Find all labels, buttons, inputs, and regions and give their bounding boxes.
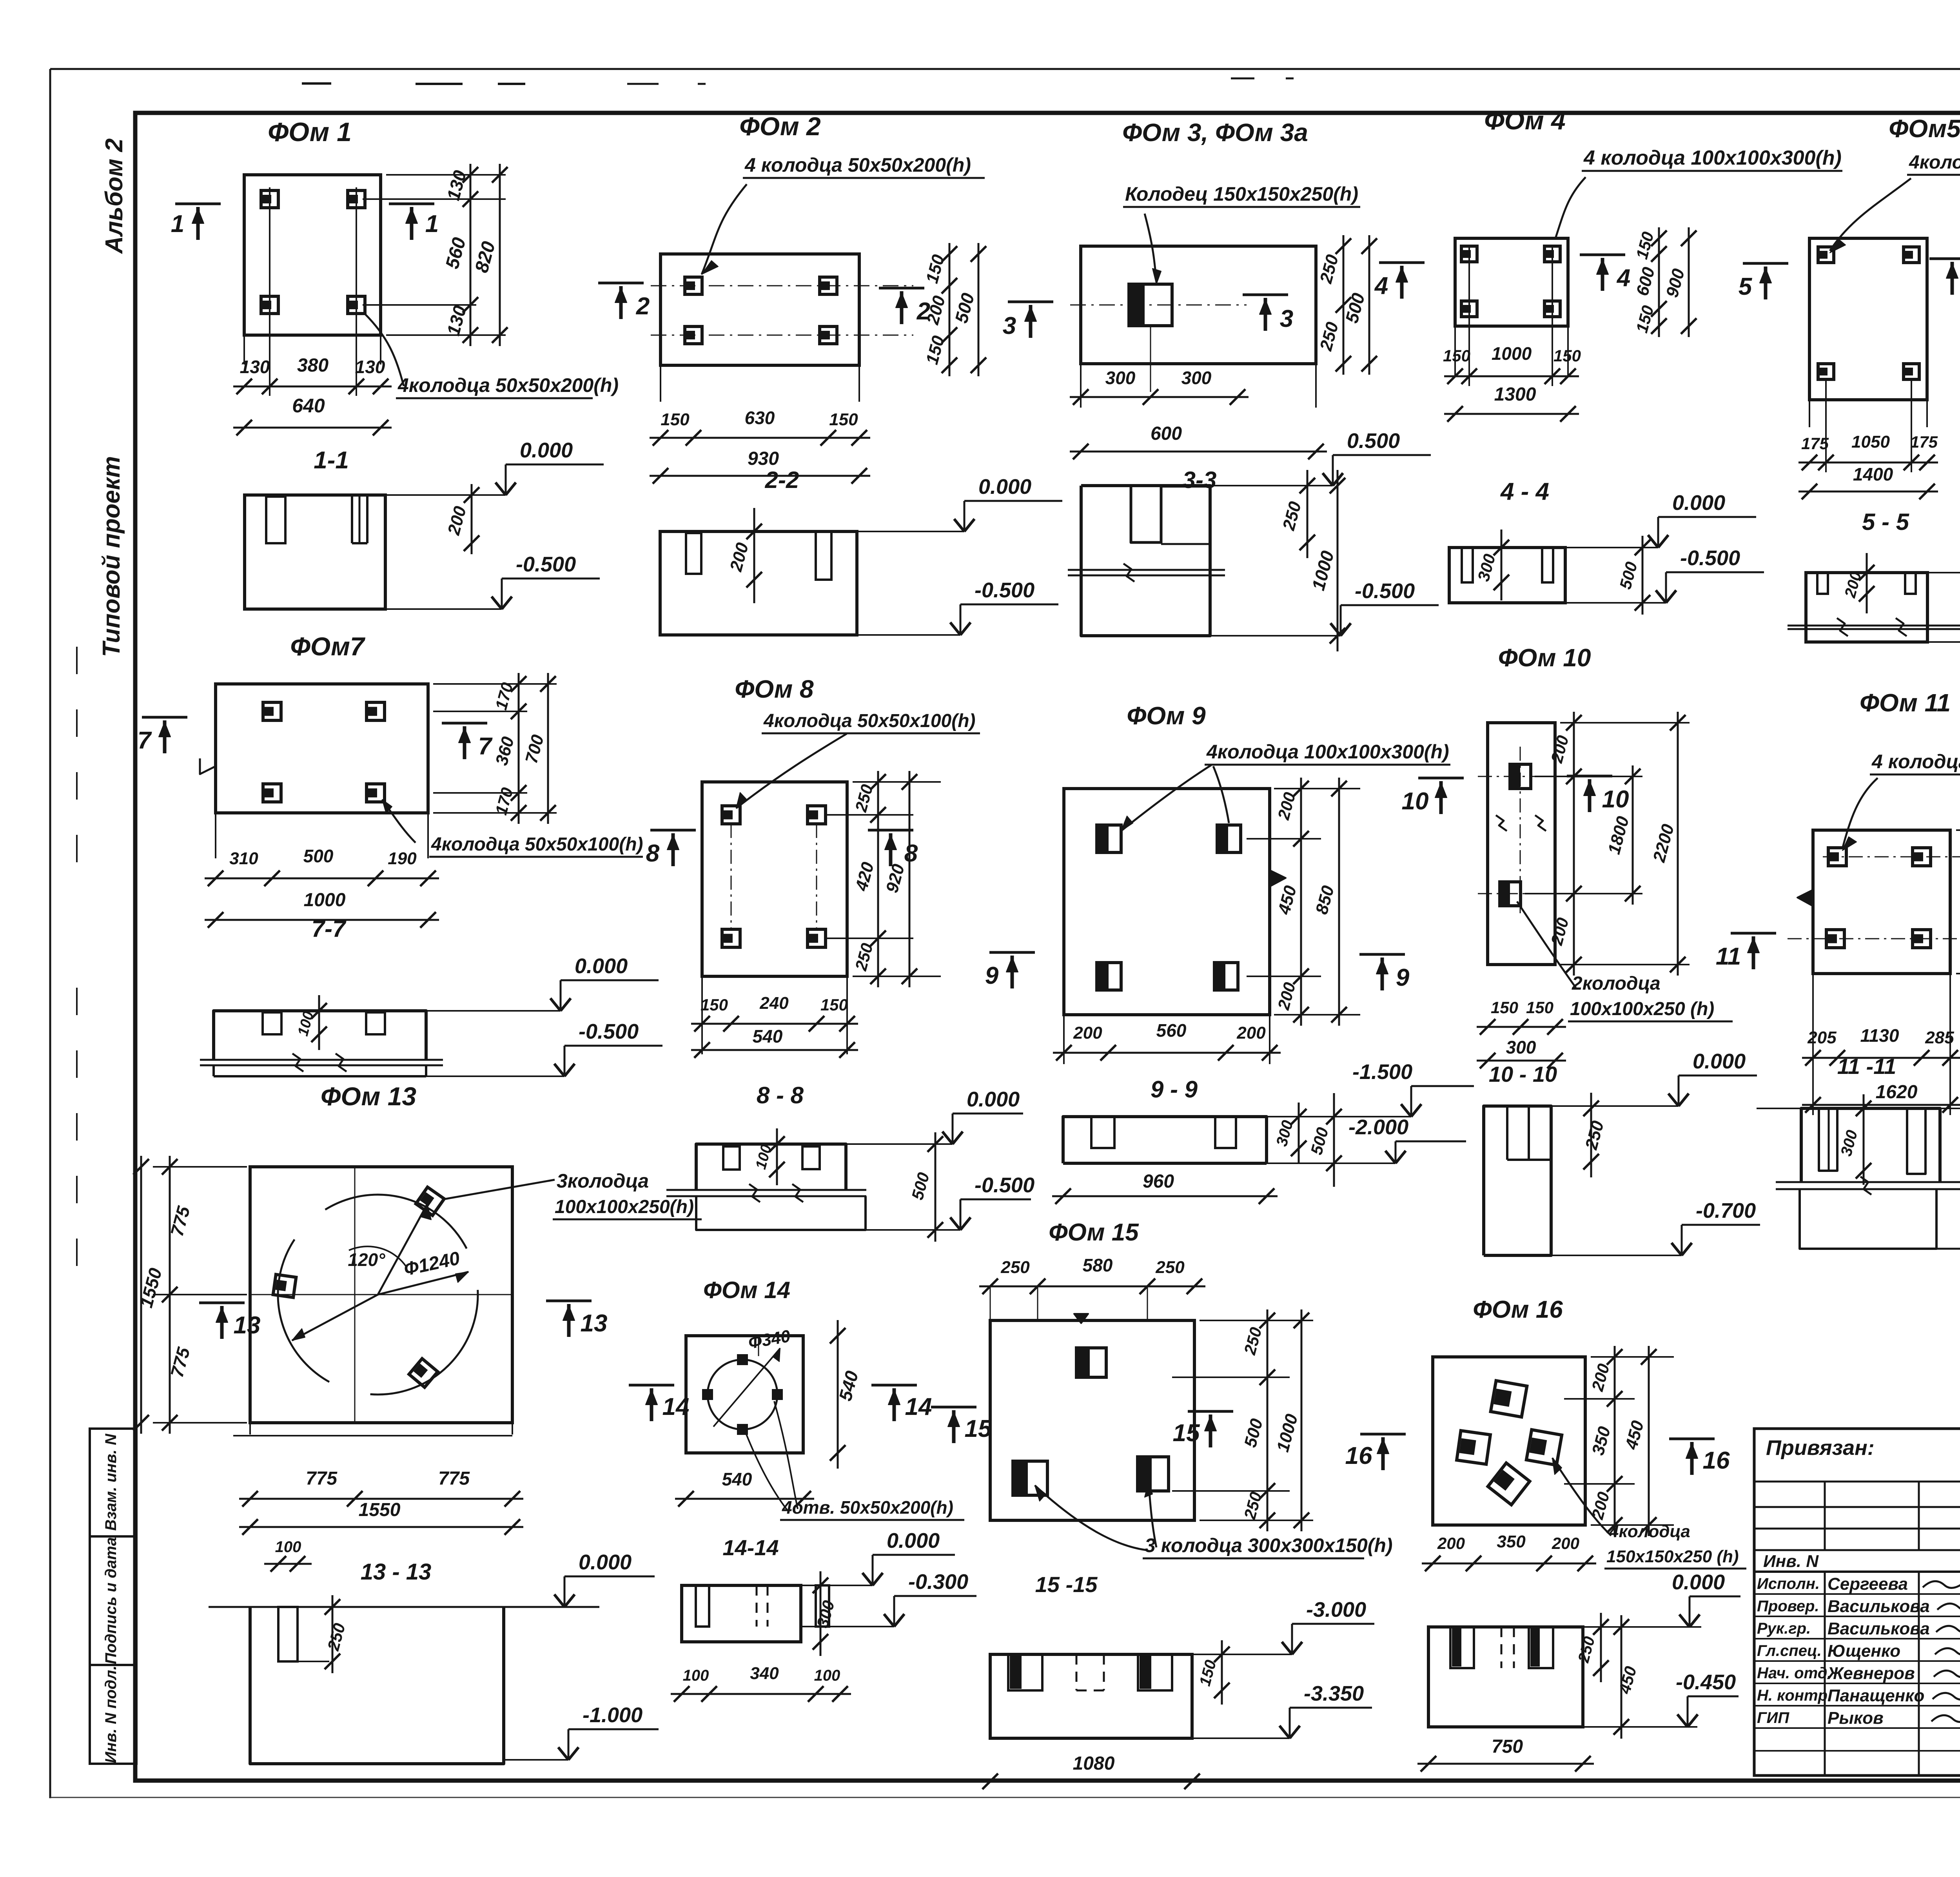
elevation 0.000 section 5-5 — [1927, 572, 1960, 573]
elevation 0.000 section 10-10 — [1551, 1105, 1679, 1107]
svg-text:Рыков: Рыков — [1828, 1708, 1884, 1728]
svg-text:930: 930 — [748, 448, 779, 469]
wells ФОм 13 — [416, 1187, 444, 1215]
svg-text:-1.000: -1.000 — [583, 1703, 642, 1727]
svg-text:0.000: 0.000 — [520, 439, 573, 462]
dim 750 section 16-16 — [1417, 1763, 1594, 1765]
svg-text:Жевнеров: Жевнеров — [1827, 1664, 1915, 1683]
svg-text:-2.000: -2.000 — [1348, 1115, 1408, 1139]
wells ФОм 15 — [1076, 1348, 1106, 1377]
dims ФОм 9 bottom — [1053, 1052, 1281, 1054]
svg-text:775: 775 — [438, 1468, 470, 1489]
svg-text:500: 500 — [303, 846, 334, 866]
margin stamp boxes bottom-left — [90, 1429, 136, 1764]
svg-text:14-14: 14-14 — [722, 1535, 779, 1560]
svg-text:100х100х250 (h): 100х100х250 (h) — [1570, 999, 1714, 1019]
elevation -3.350 section 15-15 — [1192, 1737, 1290, 1739]
svg-text:540: 540 — [722, 1469, 752, 1489]
svg-text:10 - 10: 10 - 10 — [1489, 1062, 1557, 1086]
svg-text:Инв. N: Инв. N — [1763, 1552, 1819, 1571]
svg-text:11: 11 — [1716, 943, 1741, 970]
svg-text:100: 100 — [275, 1538, 301, 1556]
section cut marks 9 — [989, 951, 1035, 954]
col dividers signature table — [1824, 1572, 1826, 1775]
svg-text:Василькова: Василькова — [1828, 1597, 1930, 1616]
elevation 0.000 section 8-8 — [846, 1143, 953, 1145]
svg-text:100: 100 — [683, 1667, 709, 1684]
svg-text:3: 3 — [1280, 305, 1293, 332]
dim 200 section 1-1 — [471, 484, 473, 554]
section cut marks 7 — [142, 716, 187, 719]
dims ФОм 9 right — [1274, 788, 1360, 789]
section cut marks 5 — [1743, 262, 1788, 265]
well ФОм 3 — [1129, 284, 1172, 326]
svg-text:340: 340 — [750, 1664, 779, 1683]
svg-text:775: 775 — [306, 1468, 338, 1489]
elevation 0.000 section 14-14 — [801, 1585, 873, 1586]
elevation -0.500 section 3-3 — [1210, 635, 1341, 637]
dims ФОм 2 right — [949, 243, 951, 376]
svg-text:1000: 1000 — [1492, 343, 1532, 364]
svg-text:-0.500: -0.500 — [975, 579, 1034, 602]
svg-text:4: 4 — [1616, 265, 1630, 292]
svg-text:ГИП: ГИП — [1757, 1709, 1789, 1726]
datum triangle ФОм 15 top — [1074, 1314, 1088, 1323]
svg-text:150: 150 — [1526, 998, 1553, 1017]
svg-text:16: 16 — [1345, 1442, 1372, 1469]
dims ФОм 8 bottom — [691, 1023, 858, 1025]
svg-text:Альбом 2: Альбом 2 — [101, 138, 128, 254]
svg-text:1550: 1550 — [359, 1500, 401, 1520]
svg-text:ФОм 3, ФОм 3а: ФОм 3, ФОм 3а — [1122, 118, 1308, 147]
dims ФОм 11 right — [1956, 829, 1960, 831]
svg-text:ФОм 10: ФОм 10 — [1498, 644, 1591, 672]
anchor wells ФОм 10 — [1510, 764, 1531, 789]
svg-text:4 колодца 50х50х200(h): 4 колодца 50х50х200(h) — [744, 154, 971, 176]
break in plan ФОм 10 — [1496, 815, 1507, 831]
svg-text:4 колодца 100х100х300(h): 4 колодца 100х100х300(h) — [1583, 147, 1842, 169]
svg-text:-0.500: -0.500 — [516, 553, 576, 576]
dim 500 section 8-8 — [935, 1132, 936, 1242]
dims ФОм 3 right — [1343, 235, 1345, 375]
elevation -0.300 section 14-14 — [801, 1626, 894, 1627]
centerlines ФОм 13 — [354, 1167, 356, 1423]
svg-text:-3.350: -3.350 — [1304, 1682, 1364, 1705]
outer sheet border — [50, 68, 1960, 70]
svg-text:5: 5 — [1739, 273, 1753, 300]
svg-text:150: 150 — [820, 996, 848, 1014]
svg-text:0.000: 0.000 — [1672, 1571, 1725, 1594]
svg-text:-0.450: -0.450 — [1676, 1670, 1736, 1694]
svg-text:10: 10 — [1602, 786, 1629, 813]
svg-text:Подпись и дата: Подпись и дата — [102, 1537, 120, 1664]
ground lines section 5-5 — [1788, 625, 1960, 627]
signature rows — [1754, 1571, 1960, 1573]
dims ФОм 15 right — [1200, 1320, 1313, 1321]
dim 300 section 4-4 — [1501, 530, 1503, 600]
svg-text:1400: 1400 — [1853, 464, 1893, 484]
svg-text:100х100х250(h): 100х100х250(h) — [555, 1197, 694, 1217]
svg-text:350: 350 — [1497, 1532, 1526, 1551]
svg-text:1080: 1080 — [1073, 1753, 1115, 1774]
svg-text:-0.500: -0.500 — [1355, 579, 1415, 603]
svg-text:560: 560 — [1156, 1020, 1187, 1041]
svg-text:Н. контр.: Н. контр. — [1757, 1687, 1832, 1704]
svg-text:9: 9 — [985, 962, 999, 989]
dims section 3-3 — [1307, 470, 1308, 558]
anchor wells ФОм 11 — [1828, 848, 1846, 866]
svg-text:3колодца: 3колодца — [557, 1170, 649, 1192]
svg-text:150: 150 — [701, 996, 728, 1014]
svg-text:540: 540 — [753, 1026, 783, 1046]
svg-text:200: 200 — [1552, 1534, 1579, 1552]
radius arrows ФОм 13 — [378, 1204, 427, 1295]
svg-text:4отв. 50х50х200(h): 4отв. 50х50х200(h) — [782, 1497, 953, 1518]
svg-text:16: 16 — [1703, 1447, 1730, 1474]
datum triangle ФОм 11 — [1797, 890, 1813, 906]
svg-text:0.000: 0.000 — [1693, 1050, 1746, 1073]
svg-text:175: 175 — [1801, 434, 1829, 453]
svg-text:1000: 1000 — [304, 890, 346, 910]
svg-text:8 - 8: 8 - 8 — [757, 1082, 804, 1108]
svg-text:750: 750 — [1492, 1736, 1523, 1757]
svg-text:150х150х250 (h): 150х150х250 (h) — [1606, 1547, 1739, 1566]
dim 500 section 4-4 — [1642, 536, 1644, 615]
section cut marks 8 — [650, 829, 696, 832]
ground lines section 3-3 — [1068, 569, 1225, 571]
svg-text:ФОм5: ФОм5 — [1889, 114, 1960, 143]
svg-text:15 -15: 15 -15 — [1035, 1572, 1098, 1597]
dims section 9-9 — [1298, 1103, 1300, 1162]
svg-text:7-7: 7-7 — [312, 916, 347, 942]
svg-text:8: 8 — [904, 840, 918, 867]
svg-text:-0.500: -0.500 — [579, 1020, 639, 1043]
svg-text:Колодец 150х150х250(h): Колодец 150х150х250(h) — [1125, 183, 1358, 205]
dim 250 section 13-13 — [332, 1595, 334, 1673]
svg-text:Сергеева: Сергеева — [1828, 1574, 1908, 1594]
svg-text:150: 150 — [1443, 346, 1470, 365]
dim 450 section 16-16 — [1621, 1615, 1622, 1739]
bolt circle ФОм 13 — [278, 1195, 478, 1395]
svg-text:13: 13 — [581, 1310, 608, 1337]
svg-text:640: 640 — [292, 395, 325, 417]
section cut marks 1 — [175, 203, 221, 205]
svg-text:300: 300 — [1181, 368, 1212, 388]
dim 100 section 7-7 — [318, 995, 320, 1050]
datum triangle ФОм 7 — [200, 758, 216, 774]
svg-text:4колодца: 4колодца — [1609, 1522, 1690, 1541]
svg-text:1-1: 1-1 — [314, 447, 349, 474]
dim 300 section 14-14 — [820, 1571, 822, 1656]
section cut marks 10 — [1418, 777, 1464, 780]
svg-text:4колодца 100х100х300(h): 4колодца 100х100х300(h) — [1206, 741, 1449, 763]
dim 150 section 15-15 — [1221, 1640, 1223, 1705]
svg-text:ФОм 16: ФОм 16 — [1473, 1296, 1563, 1323]
dims ФОм 8 right — [853, 781, 941, 783]
svg-text:580: 580 — [1083, 1255, 1113, 1275]
elevation -1.000 section 13-13 — [504, 1759, 568, 1761]
svg-text:15: 15 — [965, 1415, 992, 1442]
dims ФОм 16 bottom — [1422, 1563, 1596, 1565]
ground lines section 8-8 — [666, 1189, 866, 1191]
svg-text:150: 150 — [1491, 998, 1518, 1017]
section cut marks 13 — [199, 1302, 245, 1304]
svg-text:190: 190 — [388, 849, 417, 868]
svg-text:9: 9 — [1396, 964, 1410, 991]
dim 250 section 16-16 — [1600, 1613, 1602, 1682]
bolts ФОм 14 — [737, 1354, 748, 1365]
svg-text:ФОм 11: ФОм 11 — [1860, 689, 1951, 717]
anchor wells ФОм 9 — [1097, 825, 1121, 852]
svg-text:1050: 1050 — [1851, 432, 1890, 452]
svg-text:13 - 13: 13 - 13 — [361, 1559, 432, 1585]
svg-text:13: 13 — [234, 1312, 261, 1339]
datum triangle ФОм 9 — [1270, 870, 1286, 887]
svg-text:ФОм 2: ФОм 2 — [739, 112, 821, 141]
dims ФОм 5 bottom — [1798, 462, 1938, 464]
elevation -0.500 section 5-5 — [1927, 641, 1960, 643]
svg-text:150: 150 — [1553, 346, 1581, 365]
dims ФОм 7 right — [433, 683, 557, 685]
svg-text:Привязан:: Привязан: — [1766, 1436, 1875, 1460]
dims ФОм 1 right — [386, 174, 506, 176]
svg-text:630: 630 — [745, 408, 775, 428]
section cut marks 11 — [1731, 932, 1776, 935]
svg-text:200: 200 — [1236, 1023, 1266, 1043]
dim 1080 section 15-15 — [979, 1781, 1203, 1783]
svg-text:1: 1 — [171, 210, 184, 238]
svg-text:1: 1 — [425, 210, 439, 238]
svg-text:5 - 5: 5 - 5 — [1862, 509, 1910, 535]
svg-text:4колодца 50х50х200(h): 4колодца 50х50х200(h) — [397, 374, 619, 396]
svg-text:-1.500: -1.500 — [1352, 1060, 1412, 1084]
dim 200 section 5-5 — [1866, 553, 1868, 613]
svg-text:205: 205 — [1807, 1028, 1837, 1047]
svg-text:2колодца: 2колодца — [1572, 973, 1661, 994]
dims ФОм 1 bottom — [233, 386, 392, 388]
anchor wells ФОм 8 — [722, 806, 740, 824]
dims ФОм 11 bottom — [1802, 1057, 1960, 1059]
svg-text:0.500: 0.500 — [1347, 429, 1400, 453]
svg-text:Гл.спец.: Гл.спец. — [1757, 1642, 1822, 1659]
anchor wells ФОм 4 — [1461, 246, 1477, 262]
svg-text:15: 15 — [1173, 1420, 1200, 1447]
elevation -2.000 section 9-9 — [1267, 1162, 1396, 1164]
svg-text:-0.700: -0.700 — [1696, 1199, 1756, 1222]
dims ФОм 2 bottom — [650, 437, 870, 439]
dims ФОм 14 bottom — [675, 1498, 814, 1500]
elevation 0.000 section 4-4 — [1565, 547, 1658, 548]
svg-text:2: 2 — [636, 293, 650, 320]
anchor wells ФОм 1 — [261, 190, 278, 208]
svg-text:10: 10 — [1402, 788, 1429, 815]
dims ФОм 7 bottom — [205, 878, 439, 880]
diagonal Ф340 ФОм 14 — [713, 1348, 780, 1427]
svg-text:150: 150 — [829, 410, 858, 429]
svg-text:250: 250 — [1155, 1258, 1185, 1277]
svg-text:130: 130 — [240, 357, 270, 377]
svg-text:0.000: 0.000 — [887, 1529, 940, 1552]
svg-text:0.000: 0.000 — [1672, 491, 1725, 515]
elevation 0.000 section 13-13 — [554, 1594, 564, 1607]
svg-text:14: 14 — [662, 1393, 690, 1420]
dims ФОм 13 left — [153, 1166, 247, 1168]
svg-text:ФОм 1: ФОм 1 — [268, 117, 352, 147]
svg-text:Василькова: Василькова — [1828, 1619, 1930, 1638]
svg-text:Инв. N подл.: Инв. N подл. — [102, 1666, 120, 1763]
svg-text:9 - 9: 9 - 9 — [1151, 1076, 1198, 1103]
elevation -0.500 section 4-4 — [1565, 602, 1666, 604]
svg-text:7: 7 — [138, 727, 152, 754]
dim 960 section 9-9 — [1052, 1195, 1278, 1197]
dim 200 section 2-2 — [753, 508, 755, 603]
svg-text:0.000: 0.000 — [978, 475, 1031, 499]
svg-text:1620: 1620 — [1876, 1082, 1918, 1103]
small table Привязан — [1754, 1429, 1960, 1775]
svg-text:4 колодца 150х150х300(h): 4 колодца 150х150х300(h) — [1871, 751, 1960, 773]
svg-text:0.000: 0.000 — [967, 1088, 1020, 1111]
svg-text:200: 200 — [1437, 1534, 1465, 1552]
dims ФОм 16 right — [1591, 1356, 1674, 1358]
svg-text:175: 175 — [1910, 433, 1938, 451]
dims ФОм 4 right — [1658, 227, 1660, 337]
svg-text:4колодца 100х100х200(h): 4колодца 100х100х200(h) — [1909, 152, 1960, 173]
wells ФОм 16 — [1491, 1381, 1527, 1417]
svg-text:0.000: 0.000 — [575, 954, 628, 978]
svg-text:3: 3 — [1003, 312, 1016, 339]
svg-text:4колодца 50х50х100(h): 4колодца 50х50х100(h) — [431, 834, 643, 855]
elevation -0.500 section 8-8 — [866, 1229, 960, 1231]
dims ФОм 4 bottom — [1444, 375, 1579, 377]
svg-text:310: 310 — [229, 849, 258, 868]
elevation 0.500 section 3-3 — [1210, 485, 1333, 486]
elevation 0.000 section 1-1 — [385, 494, 506, 496]
svg-text:2-2: 2-2 — [765, 467, 799, 493]
ground lines section 7-7 — [200, 1059, 443, 1061]
dims section 14-14 bottom — [671, 1693, 851, 1695]
section cut marks 3 — [1008, 301, 1053, 303]
elevation -0.450 section 16-16 — [1583, 1726, 1697, 1728]
margin dashed line — [76, 647, 78, 886]
elevation 0.000 section 16-16 — [1583, 1626, 1701, 1628]
svg-text:300: 300 — [1506, 1037, 1536, 1057]
dims ФОм 10 right — [1560, 722, 1690, 724]
svg-text:Провер.: Провер. — [1757, 1598, 1819, 1615]
dim 100 section 13-13 — [264, 1563, 312, 1565]
top edge scan dashes — [302, 82, 331, 85]
svg-text:4: 4 — [1374, 272, 1388, 299]
elevation -0.500 section 2-2 — [857, 634, 960, 636]
svg-text:Ющенко: Ющенко — [1828, 1641, 1900, 1661]
svg-text:300: 300 — [1105, 368, 1136, 388]
svg-text:1130: 1130 — [1860, 1025, 1899, 1046]
dims ФОм 3 bottom — [1070, 396, 1249, 398]
elevation -0.500 section 7-7 — [426, 1075, 564, 1077]
svg-text:-0.300: -0.300 — [908, 1570, 968, 1594]
svg-text:11 -11: 11 -11 — [1837, 1054, 1896, 1079]
svg-text:130: 130 — [355, 357, 385, 377]
svg-text:285: 285 — [1925, 1028, 1954, 1047]
bolt circle ФОм 14 — [708, 1360, 777, 1429]
elevation -1.500 section 9-9 — [1267, 1116, 1411, 1117]
svg-text:ФОм 13: ФОм 13 — [321, 1082, 416, 1111]
svg-text:ФОм 14: ФОм 14 — [703, 1277, 790, 1303]
svg-text:150: 150 — [661, 410, 690, 429]
svg-text:100: 100 — [814, 1667, 840, 1684]
elevation -0.700 section 10-10 — [1551, 1255, 1682, 1256]
svg-text:4колодца 50х50х100(h): 4колодца 50х50х100(h) — [763, 711, 976, 731]
section 3-3 profile — [1081, 486, 1210, 636]
svg-text:600: 600 — [1151, 423, 1182, 444]
svg-text:-0.500: -0.500 — [1680, 546, 1740, 570]
anchor wells ФОм 5 — [1818, 247, 1834, 263]
dims ФОм 10 bottom — [1477, 1026, 1566, 1028]
dims ФОм 14 right — [837, 1320, 839, 1469]
ground lines section 11-11 — [1776, 1181, 1960, 1183]
section cut marks 2 — [598, 282, 644, 285]
svg-text:Типовой проект: Типовой проект — [98, 456, 125, 657]
svg-text:ФОм 8: ФОм 8 — [735, 675, 814, 703]
svg-text:240: 240 — [759, 994, 789, 1013]
svg-text:-0.500: -0.500 — [975, 1173, 1034, 1197]
elevation 0.000 section 11-11 — [1757, 1108, 1801, 1109]
svg-text:380: 380 — [297, 355, 328, 376]
svg-text:ФОм7: ФОм7 — [290, 632, 365, 661]
elevation 0.000 section 7-7 — [426, 1010, 561, 1012]
dim 300 section 11-11 — [1863, 1094, 1865, 1185]
section cut marks 4 — [1379, 261, 1425, 264]
dims ФОм 13 bottom — [239, 1498, 523, 1500]
section cut marks 14 — [629, 1384, 674, 1387]
svg-text:ФОм 15: ФОм 15 — [1049, 1219, 1139, 1246]
section 16-16 — [1428, 1627, 1583, 1727]
elevation 0.000 section 2-2 — [857, 531, 964, 532]
svg-text:Панащенко: Панащенко — [1828, 1686, 1924, 1705]
svg-text:Рук.гр.: Рук.гр. — [1757, 1620, 1811, 1637]
dim 100 section 8-8 — [776, 1128, 778, 1185]
svg-text:Исполн.: Исполн. — [1757, 1575, 1820, 1592]
svg-text:7: 7 — [478, 733, 493, 760]
svg-text:14: 14 — [905, 1393, 932, 1420]
svg-text:ФОм 9: ФОм 9 — [1127, 702, 1206, 730]
elevation -0.500 section 1-1 — [385, 608, 502, 610]
svg-text:8: 8 — [646, 840, 660, 867]
svg-text:960: 960 — [1143, 1171, 1174, 1192]
svg-text:200: 200 — [1073, 1023, 1102, 1043]
elevation -3.000 section 15-15 — [1192, 1654, 1292, 1655]
dim 250 section 10-10 — [1590, 1093, 1592, 1177]
section cut marks 16 — [1360, 1433, 1406, 1436]
svg-text:Нач. отд.: Нач. отд. — [1757, 1665, 1831, 1682]
svg-text:-3.000: -3.000 — [1306, 1598, 1366, 1621]
svg-text:1300: 1300 — [1494, 384, 1536, 405]
svg-text:ФОм 4: ФОм 4 — [1484, 106, 1566, 135]
svg-text:120°: 120° — [348, 1250, 385, 1270]
svg-text:3 колодца 300х300х150(h): 3 колодца 300х300х150(h) — [1145, 1534, 1393, 1556]
anchor wells ФОм 7 — [263, 702, 281, 720]
svg-text:4 - 4: 4 - 4 — [1500, 478, 1549, 505]
dims ФОм 15 top — [979, 1286, 1205, 1288]
svg-text:250: 250 — [1000, 1258, 1030, 1277]
svg-text:0.000: 0.000 — [579, 1551, 632, 1574]
svg-text:Взам. инв. N: Взам. инв. N — [102, 1433, 120, 1531]
anchor wells ФОм 2 — [685, 277, 702, 294]
section cut marks 15 — [931, 1406, 976, 1409]
